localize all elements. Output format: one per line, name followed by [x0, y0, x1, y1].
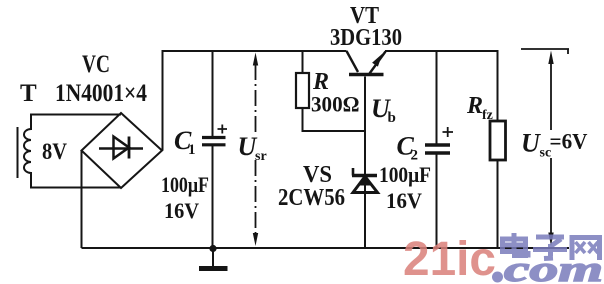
wire bridge positive up to top rail — [162, 51, 164, 151]
svg-text:8V: 8V — [42, 139, 67, 164]
transistor VT — [347, 51, 386, 75]
svg-text:T: T — [20, 80, 37, 107]
wire secondary top — [30, 114, 121, 116]
zener diode VS — [352, 168, 378, 193]
capacitor C2 — [425, 127, 453, 153]
svg-text:=6V: =6V — [550, 129, 588, 154]
wire C1 branch top — [212, 51, 214, 137]
svg-text:sr: sr — [255, 149, 267, 164]
wire bottom rail — [82, 247, 570, 249]
bridge rectifier VC diode symbol — [99, 137, 143, 159]
wire C1 branch bottom — [212, 146, 214, 248]
wire secondary bottom — [30, 187, 121, 189]
svg-text:1: 1 — [188, 142, 196, 158]
transformer T core bar — [17, 127, 19, 178]
svg-text:1N4001×4: 1N4001×4 — [55, 80, 147, 107]
wire C2 branch top — [436, 51, 438, 144]
svg-text:16V: 16V — [386, 188, 422, 213]
svg-text:R: R — [466, 93, 483, 119]
子 — [536, 237, 564, 259]
wire top rail left segment — [162, 50, 347, 52]
网 — [572, 238, 600, 261]
svg-text:U: U — [521, 129, 541, 158]
voltage arrow Usr (dash-dot) — [253, 53, 258, 247]
bridge rectifier VC diamond — [82, 113, 163, 188]
voltage arrow Usc — [548, 51, 553, 247]
电 — [512, 233, 528, 258]
svg-text:2CW56: 2CW56 — [278, 185, 345, 211]
wire base down — [364, 77, 366, 249]
wire zener to bottom rail — [364, 194, 366, 249]
transformer T secondary winding — [24, 115, 31, 188]
watermark 21ic.com dianziwang — [403, 233, 603, 284]
wire Rfz bottom — [497, 160, 499, 248]
wire C2 branch bottom — [436, 155, 438, 249]
svg-text:21ic: 21ic — [403, 233, 496, 284]
capacitor C1 — [202, 125, 227, 145]
svg-text:fz: fz — [482, 108, 493, 123]
svg-text:100μF: 100μF — [379, 162, 431, 187]
svg-text:16V: 16V — [164, 198, 199, 223]
wire top rail right segment — [385, 50, 499, 52]
output terminal tick top — [521, 49, 569, 54]
wire R branch top — [302, 51, 304, 73]
wire Rfz branch top — [497, 51, 499, 121]
wire bridge negative to bottom rail — [81, 151, 83, 249]
svg-text:VC: VC — [82, 51, 110, 78]
svg-text:100μF: 100μF — [161, 172, 209, 197]
svg-text:3DG130: 3DG130 — [330, 25, 402, 51]
svg-text:b: b — [388, 110, 396, 126]
wire R bottom to base node — [303, 108, 366, 131]
resistor R — [296, 73, 309, 108]
ground — [199, 245, 228, 269]
resistor Rfz — [490, 121, 506, 160]
svg-text:300Ω: 300Ω — [311, 92, 360, 117]
